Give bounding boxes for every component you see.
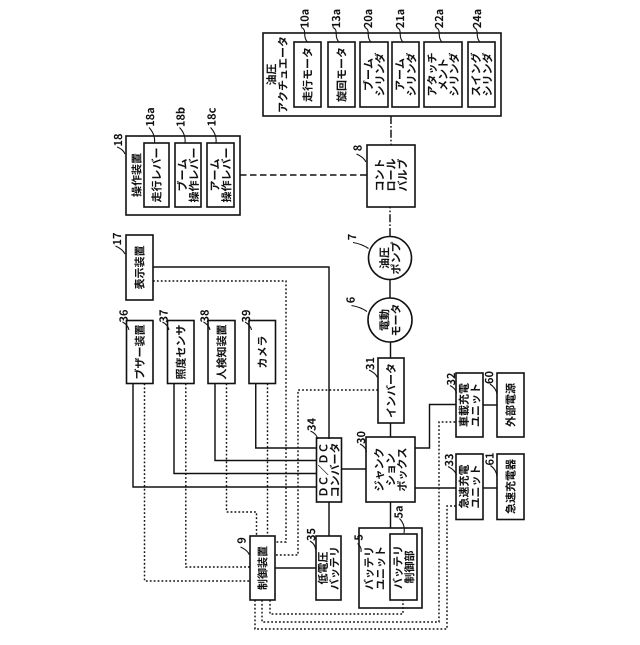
box person detection device 38: [208, 321, 235, 384]
box attachment cylinder 22a: [424, 42, 462, 107]
ref 24a: [473, 10, 482, 28]
wire control device 9 to low-voltage battery 35 (solid): [275, 567, 316, 569]
ref 34: [307, 418, 316, 430]
box junction box 30: [366, 437, 415, 502]
wire junction box to quick charging unit 33 (solid): [415, 487, 456, 489]
box travel lever 18a: [144, 143, 169, 207]
ref 30: [357, 432, 366, 444]
ref 9: [237, 538, 246, 544]
box buzzer device 36: [127, 321, 154, 384]
box external power source 60: [497, 373, 524, 437]
box operating device 18 outer: [126, 136, 240, 215]
wire camera 39 to control device (dotted signal): [267, 384, 269, 536]
ref 13a: [332, 10, 341, 28]
wire electric motor to hydraulic pump (solid): [389, 280, 391, 299]
wire DC/DC to junction box (solid): [342, 468, 367, 470]
wire inverter to electric motor (solid): [390, 342, 392, 358]
ref 38: [200, 310, 209, 322]
wire charging unit 32 to external power 60 (solid): [483, 404, 497, 406]
box boom operating lever 18b: [175, 143, 201, 207]
wire camera 39 to DC/DC (solid): [256, 384, 317, 449]
wire control device to battery control 5a (dotted signal): [270, 600, 403, 614]
ref 35: [307, 529, 316, 541]
ref 31: [366, 358, 375, 370]
box inverter 31: [378, 358, 404, 423]
ref 20a: [364, 10, 373, 28]
box swing motor 13a: [328, 42, 355, 107]
wire inverter to control device (dotted signal): [275, 390, 378, 555]
ref 18b: [176, 108, 185, 127]
box quick charger 61: [497, 454, 524, 520]
box control valve 8: [367, 145, 415, 207]
wire control device to charging unit 32 (dotted signal): [262, 422, 456, 622]
ref 8: [353, 145, 362, 151]
ref 18c: [207, 108, 216, 126]
ref 10a: [300, 10, 309, 28]
wire operating device to control valve (dashed pilot): [240, 174, 367, 176]
ref 33: [445, 454, 454, 466]
ref 18a: [146, 108, 155, 126]
wire junction box to on-board charging unit 32 (solid): [415, 405, 456, 449]
ref 32: [447, 373, 456, 385]
box arm operating lever 18c: [207, 143, 234, 207]
wire display to control device (dotted signal): [153, 281, 286, 542]
box DC/DC converter 34: [317, 438, 342, 502]
circle electric motor 6: [368, 298, 412, 342]
ref 6: [346, 297, 355, 303]
ref 5: [354, 535, 362, 541]
box quick charging unit 33: [456, 454, 483, 520]
ref 18: [114, 134, 123, 146]
wire low-voltage battery 35 to DC/DC (solid): [328, 502, 330, 536]
ref 5a: [394, 506, 402, 518]
ref 17: [113, 233, 121, 245]
wire quick charging unit 33 to quick charger 61 (solid): [483, 487, 497, 489]
ref 61: [485, 453, 494, 465]
ref 37: [159, 310, 168, 322]
wire control device to quick charge unit 33 (dotted signal): [255, 506, 456, 629]
wire control valve to actuator unit (chain): [390, 116, 392, 145]
ref 22a: [435, 10, 444, 28]
wire junction box to inverter (solid): [390, 423, 392, 437]
ref 39: [242, 310, 251, 322]
wire person-detect 38 to control device (dotted signal): [227, 384, 257, 536]
wire illuminance 37 to DC/DC (solid): [174, 384, 317, 474]
box control device 9: [250, 536, 275, 600]
wire display to DC/DC converter (solid): [153, 267, 329, 439]
wire junction box to battery unit (solid): [390, 502, 392, 528]
wire buzzer 36 to control device (dotted signal): [145, 384, 251, 582]
box on-board charging unit 32: [456, 373, 483, 437]
box display device 17: [126, 235, 153, 300]
box camera 39: [249, 321, 276, 384]
box travel motor 10a: [294, 42, 321, 107]
ref 7: [348, 234, 356, 240]
box swing cylinder 24a: [468, 42, 495, 107]
ref 21a: [396, 10, 405, 28]
wire person-detect 38 to DC/DC (solid): [215, 384, 317, 461]
ref 60: [485, 372, 494, 384]
box arm cylinder 21a: [392, 42, 419, 107]
box low-voltage battery 35: [316, 536, 341, 600]
wire pump to control valve (chain): [389, 207, 391, 236]
box illuminance sensor 37: [168, 321, 195, 384]
circle hydraulic pump 7: [369, 237, 412, 280]
ref 36: [119, 310, 128, 322]
box hydraulic actuator unit (oil pressure actuator) outer: [263, 33, 501, 116]
box boom cylinder 20a: [360, 42, 388, 107]
wire buzzer 36 to DC/DC (solid): [133, 384, 317, 488]
wire illuminance 37 to control device (dotted signal): [186, 384, 250, 568]
box battery unit 5 outer: [359, 528, 422, 608]
box battery control part 5a: [390, 534, 417, 600]
